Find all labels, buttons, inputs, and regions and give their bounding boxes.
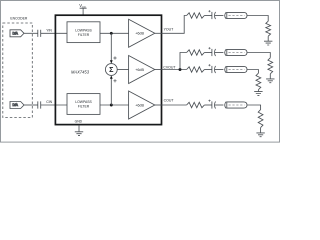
connector J4 <box>225 102 247 109</box>
IC MAX7453 outline <box>55 15 161 124</box>
wire C6 to jack J4 <box>215 104 223 106</box>
connector J3 <box>225 66 247 73</box>
svg-text:Σ: Σ <box>109 65 114 74</box>
wire R6 to ground <box>269 74 271 79</box>
wire R4 to C6 <box>204 104 212 106</box>
op-amp A3 (+6dB) <box>129 91 155 119</box>
plus sign (luma input) <box>113 56 116 59</box>
svg-text:D/A: D/A <box>13 32 19 36</box>
wire A1 to YOUT pin <box>155 32 162 34</box>
svg-text:FILTER: FILTER <box>78 105 90 109</box>
lowpass filter block (chroma) <box>67 94 100 115</box>
wire J3 to R7 <box>247 70 258 74</box>
svg-text:CC: CC <box>82 5 86 9</box>
wire COUT to R4 <box>162 104 187 106</box>
svg-text:CIN: CIN <box>46 100 52 104</box>
wire D/A to C1 (luma) <box>24 32 38 34</box>
connector J1 (YOUT jack) <box>225 12 247 19</box>
wire J2 to R6 <box>247 53 270 58</box>
wire J1 to R5 <box>247 16 268 22</box>
capacitor C1 (YIN coupling) <box>38 30 41 37</box>
svg-text:+6dB: +6dB <box>135 68 144 72</box>
svg-text:+6dB: +6dB <box>135 32 144 36</box>
wire R5 to ground <box>267 36 269 41</box>
wire LPF1 to amp A1 <box>100 32 129 34</box>
ground (R8) <box>256 133 264 137</box>
capacitor C3 (YOUT coupling, polarized) <box>208 10 215 19</box>
svg-text:FILTER: FILTER <box>78 33 90 37</box>
op-amp A1 (+6dB) <box>129 19 155 47</box>
capacitor C4 (polarized) <box>208 47 215 56</box>
svg-text:COUT: COUT <box>164 98 175 102</box>
resistor R5 (YOUT load) <box>266 21 271 36</box>
wire A3 to COUT pin <box>155 104 162 106</box>
wire R8 to ground <box>260 128 262 133</box>
wire C1 to YIN pin <box>41 32 67 34</box>
svg-text:MAX7453: MAX7453 <box>71 69 90 74</box>
wire summer to amp A2 <box>117 69 128 71</box>
DAC D/A (luma) <box>10 30 24 37</box>
power VCC symbol <box>79 3 86 15</box>
svg-text:CVOUT: CVOUT <box>163 66 176 70</box>
node junction (CVOUT split) <box>179 68 182 71</box>
wire R3 to C5 <box>204 69 212 71</box>
connector J2 <box>225 49 247 56</box>
node junction (chroma tap) <box>110 104 113 107</box>
wire C4 to jack J2 <box>215 52 223 54</box>
wire junction up to row2 <box>180 53 187 70</box>
svg-text:ENCODER: ENCODER <box>10 16 28 20</box>
wire luma tap to summer (arrow) <box>110 33 113 63</box>
ground (R7) <box>254 92 262 96</box>
ground (YOUT load) <box>264 41 272 45</box>
plus sign (chroma input) <box>113 79 116 82</box>
resistor R3 (CVOUT series lower) <box>187 67 205 72</box>
ground (chip GND) <box>75 125 83 136</box>
summer U1 (sigma) <box>105 64 117 76</box>
svg-text:GND: GND <box>75 119 83 123</box>
resistor R6 (load) <box>268 58 273 74</box>
op-amp A2 (+6dB) <box>129 56 155 84</box>
node junction (luma tap) <box>110 32 113 35</box>
resistor R1 (YOUT series) <box>187 13 205 18</box>
DAC D/A (chroma) <box>10 102 24 109</box>
capacitor C5 (polarized) <box>208 64 215 73</box>
capacitor C2 (CIN coupling) <box>38 101 41 108</box>
svg-text:LOWPASS: LOWPASS <box>75 28 92 32</box>
wire R1 to C3 <box>204 15 212 17</box>
svg-text:+6dB: +6dB <box>135 103 144 107</box>
resistor R7 (load) <box>256 73 261 90</box>
wire R7 to ground <box>257 90 259 92</box>
wire CVOUT to junction <box>162 69 187 71</box>
wire J4 to R8 <box>247 105 261 110</box>
wire chroma tap to summer (arrow) <box>110 75 113 105</box>
wire R2 to C4 <box>204 52 212 54</box>
resistor R4 (COUT series) <box>187 102 205 107</box>
wire C5 to jack J3 <box>215 69 223 71</box>
svg-text:YIN: YIN <box>46 29 52 33</box>
wire D/A to C2 (chroma) <box>24 104 38 106</box>
resistor R8 (load) <box>258 110 263 128</box>
encoder dashed box <box>3 23 33 118</box>
border frame <box>1 1 280 143</box>
svg-text:YOUT: YOUT <box>164 28 175 32</box>
wire LPF2 to amp A3 <box>100 104 129 106</box>
wire A2 to CVOUT pin <box>155 69 162 71</box>
wire C3 to jack J1 <box>215 15 223 17</box>
resistor R2 (CVOUT series upper) <box>187 50 205 55</box>
ground (R6) <box>266 79 274 83</box>
wire YOUT jog up to row1 <box>162 16 187 34</box>
capacitor C6 (polarized) <box>208 100 215 109</box>
wire C2 to CIN pin <box>41 104 67 106</box>
lowpass filter block (luma) <box>67 22 100 43</box>
svg-text:LOWPASS: LOWPASS <box>75 100 92 104</box>
svg-text:D/A: D/A <box>13 103 19 107</box>
